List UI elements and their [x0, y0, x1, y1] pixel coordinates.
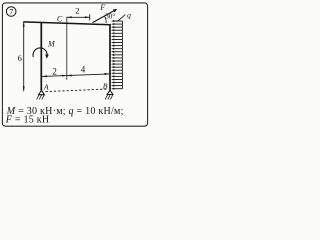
member: left column [40, 22, 42, 90]
top dimension right tick [89, 14, 91, 20]
svg-text:A: A [43, 83, 49, 92]
svg-text:2: 2 [75, 6, 79, 16]
svg-text:M: M [47, 39, 56, 48]
svg-text:q: q [127, 10, 131, 19]
border frame (decorative) [2, 3, 147, 126]
pin support A triangle [39, 90, 45, 94]
label q leader line [117, 15, 126, 22]
distributed load q tail line [121, 21, 123, 89]
distributed load q arrows [111, 20, 122, 90]
bottom dimension line [42, 74, 110, 77]
svg-text:C: C [57, 15, 63, 24]
svg-text:6: 6 [18, 53, 22, 63]
moment M arrowhead [45, 54, 49, 59]
force F arrowhead [113, 9, 117, 13]
svg-text:30°: 30° [105, 13, 115, 21]
top dimension 2 right arrowhead [85, 16, 90, 18]
member: right column [109, 24, 111, 90]
dimension 6 top arrowhead [23, 22, 25, 27]
dimension 6 bottom arrowhead [23, 86, 25, 91]
dimension 6 vertical line [23, 22, 25, 91]
force F line [93, 10, 116, 23]
support B hatching [105, 95, 113, 100]
bottom dimension arrows at middle tick [62, 75, 67, 77]
bottom dimension right arrowhead at column B [105, 73, 110, 75]
problem number 7 circle [6, 7, 16, 17]
svg-text:2: 2 [52, 66, 57, 76]
svg-text:F: F [99, 3, 105, 12]
pin support B triangle [107, 90, 113, 94]
svg-text:4: 4 [81, 65, 86, 75]
member: top beam (with left extension to dimension line) [23, 22, 110, 25]
svg-text:7: 7 [9, 7, 13, 16]
support A hatching [37, 95, 45, 100]
top dimension 2 left arrowhead [67, 16, 72, 18]
extension line through C down to bottom dimension [66, 17, 68, 80]
svg-text:B: B [103, 81, 108, 90]
moment M arc [33, 48, 47, 57]
top dimension 2 line [67, 16, 90, 18]
bottom dimension left arrowhead at column A [42, 75, 47, 77]
dashed baseline A to B [46, 89, 109, 92]
svg-text:F = 15 кН: F = 15 кН [5, 115, 50, 126]
angle arc 30 [105, 16, 107, 23]
